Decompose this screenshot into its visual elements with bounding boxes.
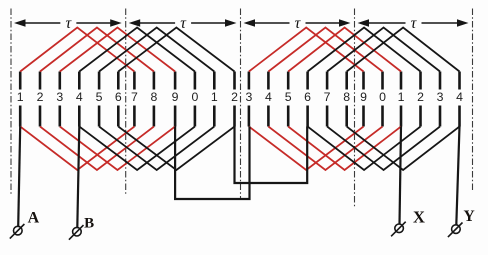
svg-text:6: 6 bbox=[115, 90, 122, 104]
svg-text:3: 3 bbox=[437, 90, 444, 104]
coil phase B slots 16-22 top end connection bbox=[308, 28, 421, 72]
coil phase B slots 5-11 top end connection bbox=[99, 28, 214, 72]
axis line pole boundary 3 (slots 18/19) bbox=[354, 9, 356, 209]
coil phase B slots 5-11 bottom end connection bbox=[99, 127, 214, 171]
coil phase B slots 18-24 bottom end connection bbox=[347, 127, 460, 171]
slot 20 coil side bbox=[381, 72, 384, 127]
coil phase A slots 3-9 bottom end connection bbox=[60, 127, 175, 171]
svg-text:X: X bbox=[413, 207, 425, 226]
slot 18 coil side bbox=[345, 72, 348, 127]
svg-text:4: 4 bbox=[265, 90, 272, 104]
svg-text:4: 4 bbox=[76, 90, 83, 104]
pole pitch arrow tau 3 bbox=[244, 19, 351, 26]
axis line pole boundary 2 (slots 12/13) bbox=[240, 9, 242, 199]
coil phase A slots 1-7 bottom end connection bbox=[20, 127, 134, 171]
terminal lead X from slot 21 bbox=[400, 127, 402, 225]
coil phase B slots 6-12 top end connection bbox=[118, 28, 234, 72]
pole pitch arrow tau 2 bbox=[129, 19, 237, 26]
coil phase B slots 4-10 bottom end connection bbox=[79, 127, 195, 171]
svg-text:2: 2 bbox=[37, 90, 44, 104]
axis line right edge bbox=[472, 9, 474, 191]
slot 9 coil side bbox=[174, 72, 177, 127]
svg-text:3: 3 bbox=[245, 90, 252, 104]
slot 14 coil side bbox=[267, 72, 270, 127]
slot 7 coil side bbox=[133, 72, 136, 127]
pole pitch arrow tau 4 bbox=[358, 19, 469, 26]
slot 24 coil side bbox=[458, 72, 461, 127]
coil phase A slots 14-20 bottom end connection bbox=[268, 127, 382, 171]
terminal lead B from slot 4 bbox=[77, 127, 79, 228]
svg-text:7: 7 bbox=[131, 90, 138, 104]
coil phase A slots 15-21 bottom end connection bbox=[288, 127, 401, 171]
coil phase A slots 2-8 bottom end connection bbox=[40, 127, 154, 171]
svg-text:7: 7 bbox=[324, 90, 331, 104]
svg-text:6: 6 bbox=[304, 90, 311, 104]
axis line pole boundary 1 (slots 6/7) bbox=[125, 9, 127, 196]
terminal symbol A bbox=[10, 224, 25, 239]
coil phase A slots 13-19 bottom end connection bbox=[249, 127, 364, 171]
slot 4 coil side bbox=[78, 72, 81, 127]
svg-text:A: A bbox=[28, 210, 40, 227]
coil phase B slots 4-10 top end connection bbox=[79, 28, 195, 72]
svg-text:9: 9 bbox=[172, 90, 179, 104]
coil phase A slots 14-20 top end connection bbox=[268, 28, 382, 72]
slot 19 coil side bbox=[362, 72, 365, 127]
slot 23 coil side bbox=[439, 72, 442, 127]
slot 8 coil side bbox=[153, 72, 156, 127]
svg-text:8: 8 bbox=[150, 90, 157, 104]
slot 2 coil side bbox=[39, 72, 42, 127]
coil phase A slots 2-8 top end connection bbox=[40, 28, 154, 72]
slot 3 coil side bbox=[58, 72, 61, 127]
slot 15 coil side bbox=[287, 72, 290, 127]
coil phase A slots 13-19 top end connection bbox=[249, 28, 364, 72]
svg-text:2: 2 bbox=[417, 90, 424, 104]
svg-text:1: 1 bbox=[17, 90, 24, 104]
svg-text:0: 0 bbox=[379, 90, 386, 104]
coil phase B slots 18-24 top end connection bbox=[347, 28, 460, 72]
slot 12 coil side bbox=[233, 72, 236, 127]
coil phase A slots 1-7 top end connection bbox=[20, 28, 134, 72]
coil phase B slots 17-23 top end connection bbox=[327, 28, 440, 72]
svg-text:Y: Y bbox=[463, 208, 474, 225]
pole pitch arrow tau 1 bbox=[14, 19, 122, 26]
jumper phase B group1(slot 12) to group2(slot 16) bbox=[235, 127, 308, 184]
slot 5 coil side bbox=[98, 72, 101, 127]
coil phase B slots 17-23 bottom end connection bbox=[327, 127, 440, 171]
svg-text:B: B bbox=[84, 216, 94, 232]
svg-text:1: 1 bbox=[211, 90, 218, 104]
slot 10 coil side bbox=[194, 72, 197, 127]
coil phase B slots 16-22 bottom end connection bbox=[308, 127, 421, 171]
svg-text:3: 3 bbox=[56, 90, 63, 104]
svg-text:5: 5 bbox=[285, 90, 292, 104]
slot 6 coil side bbox=[117, 72, 120, 127]
terminal symbol X bbox=[391, 222, 406, 237]
svg-text:0: 0 bbox=[191, 90, 198, 104]
terminal lead Y from slot 24 bbox=[456, 127, 459, 226]
svg-text:9: 9 bbox=[360, 90, 367, 104]
slot 1 coil side bbox=[19, 72, 22, 127]
svg-text:4: 4 bbox=[456, 90, 463, 104]
jumper phase A group1(slot 9) to group2(slot 13) bbox=[175, 127, 249, 200]
slot 16 coil side bbox=[306, 72, 309, 127]
terminal lead A from slot 1 bbox=[18, 127, 20, 227]
svg-text:8: 8 bbox=[343, 90, 350, 104]
svg-text:2: 2 bbox=[231, 90, 238, 104]
slot 17 coil side bbox=[326, 72, 329, 127]
svg-text:5: 5 bbox=[96, 90, 103, 104]
slot 11 coil side bbox=[213, 72, 216, 127]
slot 21 coil side bbox=[400, 72, 403, 127]
coil phase A slots 15-21 top end connection bbox=[288, 28, 401, 72]
svg-text:1: 1 bbox=[398, 90, 405, 104]
axis line left edge bbox=[10, 9, 12, 197]
slot 13 coil side bbox=[248, 72, 251, 127]
coil phase B slots 6-12 bottom end connection bbox=[118, 127, 234, 171]
terminal symbol B bbox=[69, 225, 84, 240]
slot 22 coil side bbox=[419, 72, 422, 127]
coil phase A slots 3-9 top end connection bbox=[60, 28, 175, 72]
terminal symbol Y bbox=[448, 223, 463, 238]
